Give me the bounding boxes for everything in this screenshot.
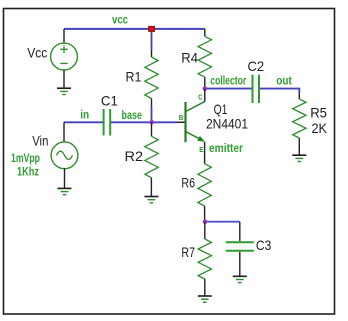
svg-text:C3: C3	[256, 237, 272, 253]
resistor R2	[151, 122, 153, 136]
svg-text:1mVpp: 1mVpp	[11, 153, 40, 165]
voltage source Vin	[63, 122, 65, 142]
ground under Vcc	[57, 88, 71, 94]
ground under R5	[292, 155, 306, 161]
transistor Q1	[184, 102, 186, 142]
svg-text:R5: R5	[310, 104, 327, 120]
wire R1 bottom	[151, 107, 153, 122]
svg-text:Vcc: Vcc	[27, 45, 47, 61]
resistor R4	[204, 29, 206, 37]
svg-text:B: B	[179, 113, 184, 122]
svg-text:E: E	[199, 145, 203, 154]
svg-text:in: in	[80, 109, 89, 121]
svg-text:emitter: emitter	[209, 143, 243, 155]
wire out	[260, 89, 300, 93]
wire emitter junction to C3	[205, 221, 240, 223]
svg-text:C2: C2	[248, 58, 265, 74]
node collector junction	[203, 86, 208, 91]
node emitter junction	[203, 219, 208, 224]
svg-text:C: C	[198, 92, 203, 101]
wire collector	[205, 88, 252, 90]
svg-text:base: base	[122, 110, 143, 122]
svg-text:R1: R1	[126, 69, 142, 85]
ground under C3	[233, 276, 247, 282]
capacitor C3	[239, 222, 241, 242]
svg-text:C1: C1	[101, 92, 118, 108]
svg-text:R2: R2	[125, 148, 144, 164]
svg-text:collector: collector	[210, 76, 246, 88]
svg-text:2N4401: 2N4401	[206, 116, 248, 132]
node vcc	[149, 26, 155, 31]
node base junction	[149, 120, 154, 125]
resistor R6	[204, 142, 206, 164]
capacitor C1	[103, 109, 105, 136]
svg-text:vcc: vcc	[112, 15, 129, 27]
ground under R7	[198, 296, 212, 302]
svg-text:1Khz: 1Khz	[17, 167, 39, 179]
resistor R7	[204, 222, 206, 239]
svg-text:R7: R7	[181, 244, 195, 260]
svg-text:Q1: Q1	[214, 101, 228, 117]
ground under R2	[144, 197, 158, 203]
wire vcc rail	[64, 28, 205, 30]
wire base lead	[177, 121, 185, 123]
wire base	[110, 121, 177, 123]
capacitor C2	[252, 75, 254, 103]
resistor R1	[151, 50, 153, 57]
wire in	[64, 121, 103, 123]
svg-text:out: out	[276, 76, 292, 88]
voltage source Vcc	[63, 29, 65, 44]
svg-text:Vin: Vin	[32, 132, 48, 148]
svg-text:R4: R4	[181, 50, 198, 66]
wire R1 top	[151, 29, 153, 50]
resistor R5	[298, 93, 300, 99]
ground under Vin	[58, 188, 72, 194]
svg-text:R6: R6	[181, 175, 195, 191]
svg-text:2K: 2K	[312, 120, 328, 136]
